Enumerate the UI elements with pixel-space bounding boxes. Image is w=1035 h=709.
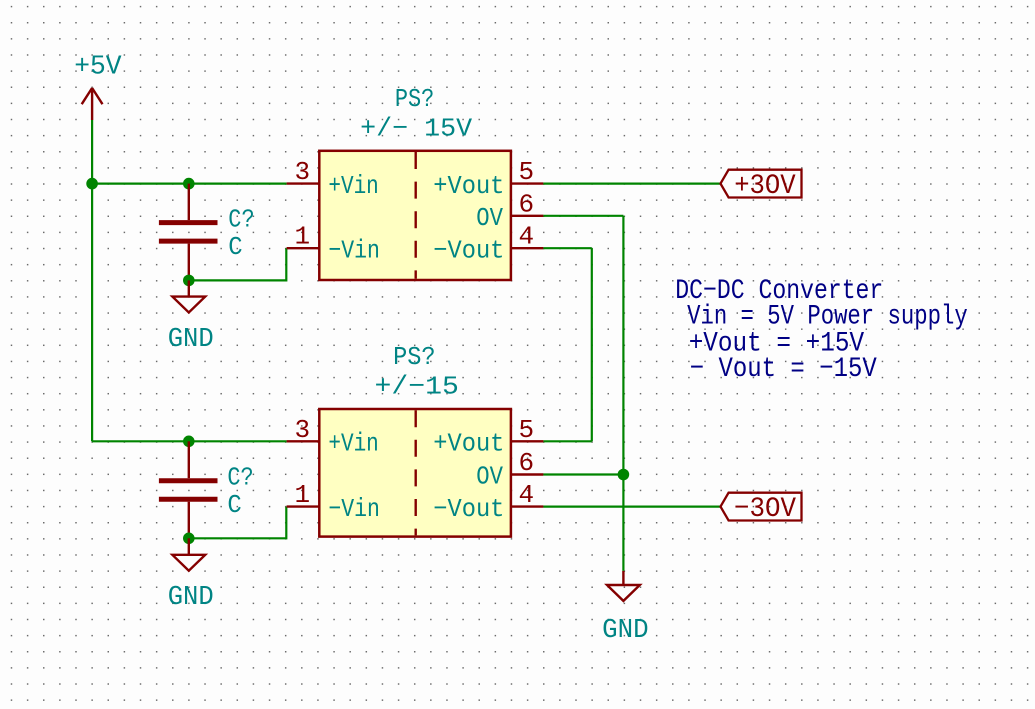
svg-text:GND: GND — [168, 583, 214, 613]
svg-text:+3OV: +3OV — [734, 171, 796, 202]
svg-text:−Vin: −Vin — [328, 235, 380, 265]
U2 pin 3 stub — [287, 440, 320, 442]
ground GND3 triangle — [607, 585, 640, 601]
wire U2 pin 6 to ground junction — [543, 473, 623, 475]
junction at C2 bottom — [183, 533, 195, 545]
power symbol +5V arrow — [82, 88, 103, 120]
svg-text:6: 6 — [518, 189, 534, 219]
wire lower-left horizontal to U2 pin 3 — [92, 440, 287, 442]
svg-text:5: 5 — [518, 157, 534, 187]
wire vertical from +5V to lower-left corner — [91, 120, 93, 441]
ground GND1 lead — [188, 280, 190, 296]
svg-text:+Vout: +Vout — [433, 171, 504, 201]
converter U2 body — [319, 409, 511, 537]
U1 pin 5 stub — [511, 182, 544, 184]
wire from C2 bottom to pin 1 of U2 — [189, 507, 286, 539]
svg-text:GND: GND — [168, 325, 214, 355]
capacitor C1 top lead — [188, 184, 190, 221]
ground GND2 lead — [188, 538, 190, 555]
svg-text:5: 5 — [518, 415, 534, 445]
svg-text:−Vin: −Vin — [328, 494, 380, 524]
wire -Vout of U1 down to U2 +Vout — [591, 248, 593, 441]
junction at capacitor C1 top — [183, 178, 195, 190]
svg-text:+5V: +5V — [74, 53, 122, 83]
capacitor C1 plates — [159, 223, 218, 242]
ground GND3 lead — [622, 571, 624, 585]
converter U2 dashed divider — [415, 410, 417, 535]
svg-text:− Vout = −15V: − Vout = −15V — [690, 354, 877, 385]
wire into U2 pin 5 — [543, 440, 591, 442]
svg-text:OV: OV — [476, 203, 503, 233]
junction at capacitor C2 top — [183, 436, 195, 448]
svg-text:PS?: PS? — [395, 84, 434, 114]
wire U1 pin 6 going right — [543, 215, 623, 217]
wire from C1 bottom to pin 1 of top box — [189, 248, 286, 280]
capacitor C2 top lead — [188, 441, 190, 478]
junction at 0V net — [618, 469, 630, 481]
svg-text:1: 1 — [294, 222, 310, 252]
svg-text:C: C — [228, 232, 242, 262]
svg-text:OV: OV — [476, 462, 503, 492]
hierarchical label -30V outline — [721, 493, 802, 521]
capacitor C2 bottom lead — [188, 502, 190, 539]
wire horizontal +5V row to top box pin 3 — [92, 183, 287, 185]
svg-text:+/− 15V: +/− 15V — [360, 114, 472, 144]
svg-text:3: 3 — [294, 415, 310, 445]
converter U1 body — [319, 151, 511, 280]
svg-text:PS?: PS? — [393, 342, 436, 372]
wire U1 pin 4 going right — [543, 247, 591, 249]
svg-text:C?: C? — [227, 463, 253, 493]
svg-text:6: 6 — [518, 448, 534, 478]
ground GND2 triangle — [172, 555, 205, 571]
U2 pin 1 stub — [287, 505, 320, 507]
U2 pin 4 stub — [511, 505, 544, 507]
U1 pin 6 stub — [511, 215, 544, 217]
svg-text:−3OV: −3OV — [734, 494, 796, 525]
svg-text:1: 1 — [294, 480, 310, 510]
svg-text:+Vout: +Vout — [433, 429, 504, 459]
U1 pin 3 stub — [287, 182, 320, 184]
U2 pin 5 stub — [511, 440, 544, 442]
svg-text:+Vin: +Vin — [328, 429, 378, 459]
wire U2 pin 4 to -30V tag — [543, 506, 720, 508]
svg-text:−Vout: −Vout — [433, 494, 504, 524]
U1 pin 4 stub — [511, 247, 544, 249]
converter U1 dashed divider — [415, 152, 417, 279]
junction at C1 bottom — [183, 275, 195, 287]
hierarchical label +30V outline — [721, 170, 802, 198]
svg-text:3: 3 — [294, 157, 310, 187]
wire 0V vertical down to lower ground — [622, 216, 624, 571]
svg-text:GND: GND — [602, 616, 649, 646]
svg-text:4: 4 — [518, 222, 534, 252]
capacitor C1 bottom lead — [188, 244, 190, 281]
wire U1 pin 5 to +30V tag — [543, 183, 720, 185]
U1 pin 1 stub — [287, 247, 320, 249]
svg-text:+Vin: +Vin — [328, 171, 378, 201]
svg-text:C?: C? — [228, 205, 254, 235]
svg-text:+/−15: +/−15 — [375, 372, 459, 402]
capacitor C2 plates — [159, 481, 218, 500]
junction at +5V vertical and top horizontal — [86, 178, 98, 190]
ground GND1 triangle — [172, 297, 205, 313]
svg-text:C: C — [227, 490, 241, 520]
U2 pin 6 stub — [511, 473, 544, 475]
svg-text:−Vout: −Vout — [433, 235, 504, 265]
svg-text:4: 4 — [518, 480, 534, 510]
